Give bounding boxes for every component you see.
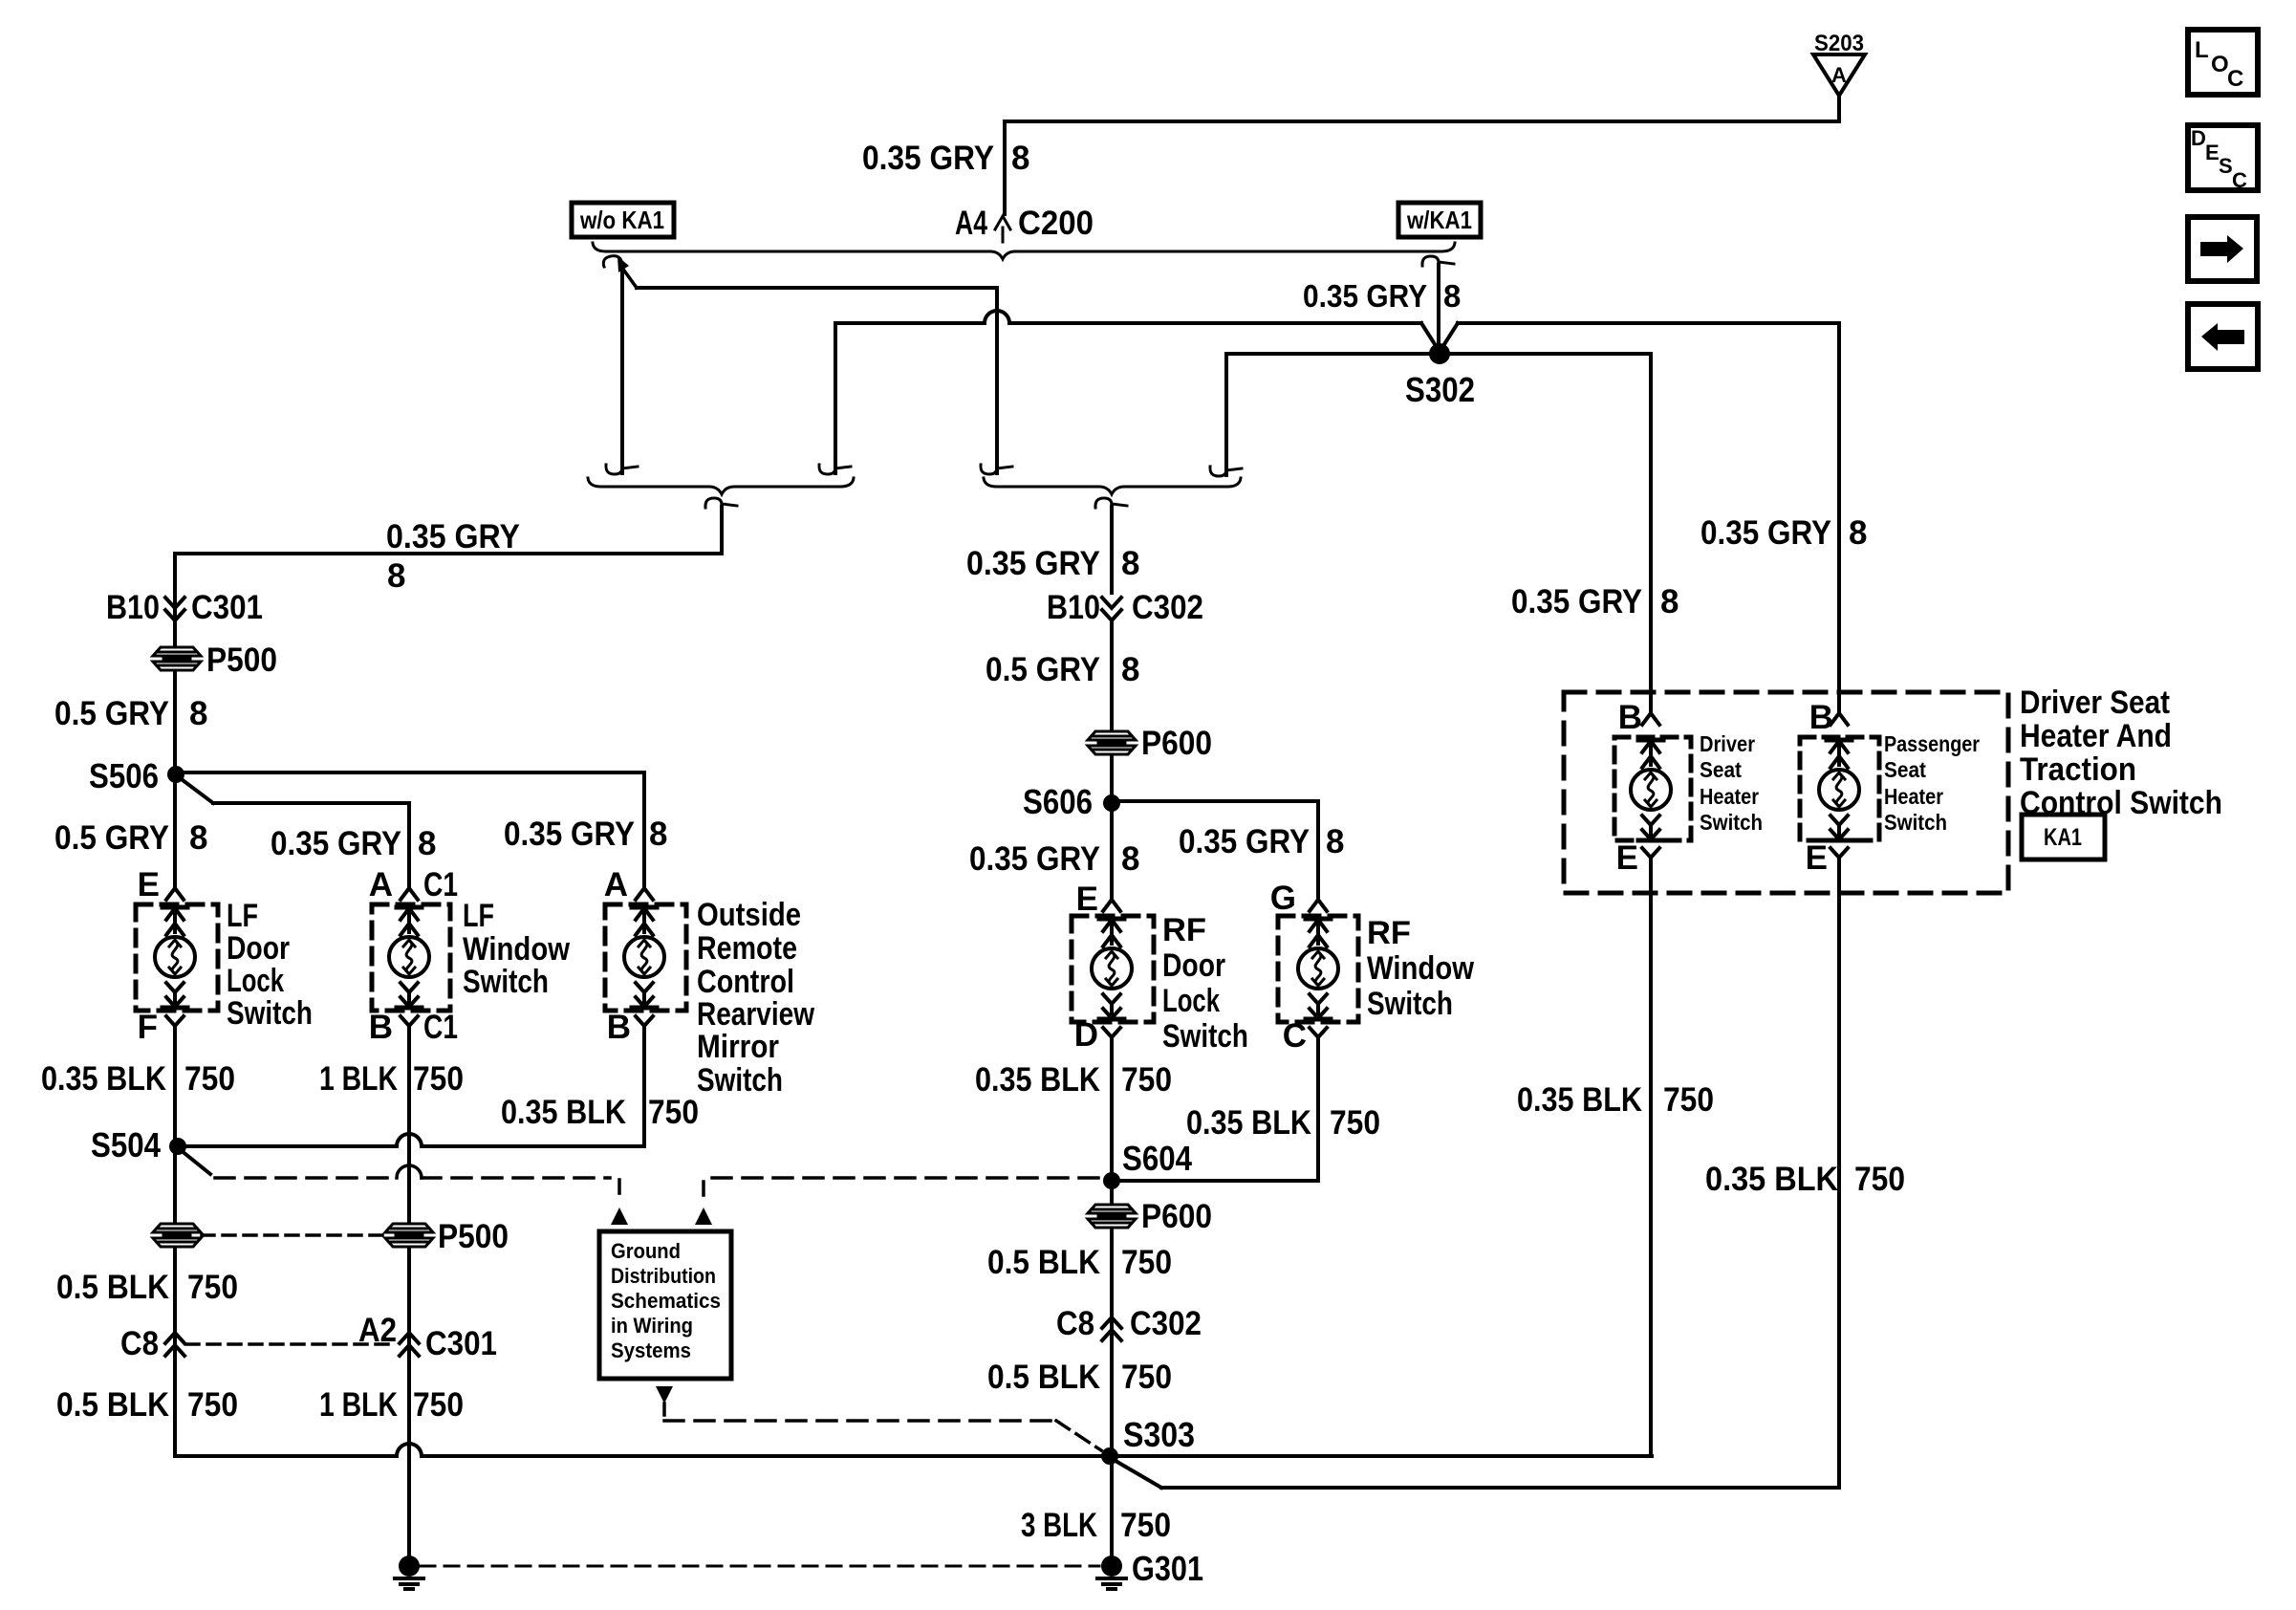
svg-text:750: 750 — [1120, 1507, 1171, 1544]
pin B label (driver heater switch) — [1618, 699, 1642, 736]
svg-text:750: 750 — [187, 1386, 238, 1424]
wire passenger heater feed — [1837, 323, 1841, 713]
connector C302 pin C8 chevrons — [1056, 1305, 1202, 1342]
svg-text:750: 750 — [1854, 1161, 1905, 1198]
svg-text:750: 750 — [184, 1060, 235, 1098]
wire label 0.35 GRY 8 (center feed) — [966, 545, 1139, 582]
wire label 0.35 BLK 750 (RF door) — [975, 1061, 1172, 1099]
wire label 0.5 BLK 750 (middle lower) — [987, 1359, 1172, 1396]
wire left column to ground rail — [175, 1444, 1652, 1456]
pin G chevron — [1310, 900, 1327, 911]
wire S302 left arm — [1226, 352, 1430, 356]
svg-text:S606: S606 — [1023, 782, 1093, 821]
pin B fork (LF window) — [401, 1016, 418, 1042]
pin E label (driver heater switch) — [1616, 839, 1638, 877]
svg-text:Systems: Systems — [611, 1338, 691, 1362]
svg-text:E: E — [1806, 839, 1828, 877]
connector C301 pin B10 labels — [106, 589, 263, 626]
svg-text:P600: P600 — [1141, 725, 1212, 762]
svg-text:C: C — [2232, 168, 2247, 192]
ground symbol left — [395, 1556, 423, 1589]
svg-text:0.5 BLK: 0.5 BLK — [56, 1269, 169, 1306]
dashed link C8 to A2 — [186, 1342, 397, 1346]
svg-text:P500: P500 — [206, 642, 277, 679]
svg-text:Mirror: Mirror — [697, 1029, 779, 1065]
svg-text:0.5 BLK: 0.5 BLK — [987, 1359, 1100, 1396]
svg-text:w/KA1: w/KA1 — [1406, 206, 1472, 234]
svg-text:Switch: Switch — [1884, 810, 1947, 835]
wire S606 to RF window feed — [1112, 801, 1318, 900]
pin F fork — [166, 1016, 184, 1042]
wire w/o KA1 branch vertical 2 — [981, 288, 1012, 474]
svg-text:0.35 BLK: 0.35 BLK — [1705, 1161, 1838, 1198]
svg-text:0.5 GRY: 0.5 GRY — [986, 651, 1100, 688]
wire S504 to mirror drop with hop — [178, 1134, 644, 1146]
svg-text:RF: RF — [1367, 915, 1411, 951]
svg-text:8: 8 — [1326, 823, 1344, 860]
wire middle column upper — [1110, 620, 1114, 900]
pin A label (mirror switch) — [604, 866, 628, 903]
svg-text:w/o KA1: w/o KA1 — [579, 206, 664, 234]
svg-text:S504: S504 — [91, 1125, 161, 1164]
svg-text:8: 8 — [418, 825, 436, 862]
svg-text:E: E — [2205, 141, 2220, 164]
splice S203 off-page triangle — [1813, 54, 1865, 96]
pin C fork — [1310, 1028, 1327, 1054]
wire driver heater ground drop — [1649, 857, 1653, 1456]
option brace lower left — [588, 478, 854, 494]
pin B label (LF window switch) — [369, 1009, 393, 1046]
svg-text:Door: Door — [227, 930, 290, 967]
mirror switch symbol — [624, 907, 664, 1008]
connector C1 label top — [423, 866, 458, 903]
connector C301 pin B10 chevrons — [165, 598, 184, 620]
heater control switch outer dashed box — [1564, 692, 2008, 893]
pin G label (RF window switch) — [1270, 880, 1296, 917]
wire label 0.35 GRY 8 (mirror feed) — [504, 816, 667, 853]
svg-text:750: 750 — [1663, 1081, 1714, 1119]
svg-text:B: B — [1618, 699, 1642, 736]
svg-text:B10: B10 — [106, 589, 160, 626]
RF door lock switch dashed box — [1072, 916, 1154, 1022]
svg-text:1 BLK: 1 BLK — [319, 1386, 398, 1424]
pin E chevron — [166, 888, 184, 900]
svg-text:Window: Window — [463, 931, 570, 968]
LF door lock switch symbol — [155, 907, 195, 1008]
wire LF door lock ground drop — [173, 1033, 177, 1456]
wire RF door ground drop — [1110, 1044, 1114, 1566]
svg-text:RF: RF — [1162, 912, 1206, 948]
pin A label (LF window switch) — [369, 866, 393, 903]
svg-text:C200: C200 — [1018, 205, 1094, 242]
svg-text:0.35 GRY: 0.35 GRY — [1511, 583, 1642, 620]
RF window switch dashed box — [1278, 916, 1358, 1022]
hook under lower-right brace — [1095, 498, 1127, 509]
svg-text:A4: A4 — [955, 205, 987, 242]
svg-text:B: B — [607, 1009, 631, 1046]
svg-text:0.35 GRY: 0.35 GRY — [504, 816, 635, 853]
RF window switch label — [1367, 915, 1474, 1022]
driver seat heater switch label — [1700, 731, 1763, 835]
wire LF window feed drop — [407, 803, 411, 888]
pin E label (passenger heater switch) — [1806, 839, 1828, 877]
ground G301 — [1097, 1549, 1203, 1589]
svg-text:Window: Window — [1367, 950, 1474, 987]
svg-text:0.35 GRY: 0.35 GRY — [862, 140, 994, 177]
svg-text:0.35 BLK: 0.35 BLK — [975, 1061, 1100, 1099]
svg-text:Outside: Outside — [697, 897, 801, 933]
svg-text:0.35 GRY: 0.35 GRY — [1700, 514, 1831, 552]
wire S302 right arm to driver feed — [1449, 352, 1651, 356]
wire label 0.35 GRY 8 (driver feed) — [1511, 583, 1679, 620]
wire label 0.35 GRY 8 (w/KA1 branch) — [1303, 278, 1461, 314]
svg-text:S: S — [2219, 154, 2233, 178]
svg-text:Switch: Switch — [1162, 1018, 1248, 1055]
wire label 0.35 GRY 8 (LF window feed) — [271, 825, 436, 862]
svg-text:Switch: Switch — [1700, 810, 1763, 835]
svg-text:8: 8 — [1443, 278, 1461, 314]
wire S302 to passenger feed corner — [1458, 321, 1839, 325]
pin A chevron (mirror switch) — [636, 888, 653, 900]
svg-text:KA1: KA1 — [2044, 824, 2082, 851]
connector C200 pin symbol — [995, 216, 1010, 242]
wire from lower-right brace — [1110, 507, 1114, 593]
wire label 3 BLK 750 — [1021, 1507, 1171, 1544]
wire label 0.35 BLK 750 (passenger ground) — [1705, 1161, 1905, 1198]
svg-text:Seat: Seat — [1700, 757, 1742, 782]
passenger seat heater switch symbol — [1819, 740, 1859, 840]
svg-text:8: 8 — [1121, 651, 1139, 688]
svg-text:8: 8 — [387, 557, 405, 595]
splice S203 label — [1814, 31, 1864, 56]
svg-text:750: 750 — [413, 1386, 464, 1424]
driver seat heater switch dashed box — [1614, 737, 1691, 840]
wire label 1 BLK 750 (window lower) — [319, 1386, 464, 1424]
svg-text:1 BLK: 1 BLK — [319, 1060, 398, 1098]
wire S506 to mirror switch feed — [176, 771, 644, 774]
wire label 0.35 BLK 750 (LF door) — [41, 1060, 235, 1098]
svg-text:Heater And: Heater And — [2020, 718, 2172, 754]
svg-text:8: 8 — [189, 695, 207, 732]
svg-text:0.5 BLK: 0.5 BLK — [56, 1386, 169, 1424]
wire S303 diagonal to passenger ground rail — [1116, 1461, 1839, 1488]
pass-through grommet P600 upper — [1087, 725, 1212, 762]
svg-text:in Wiring: in Wiring — [611, 1314, 693, 1338]
svg-text:P500: P500 — [438, 1218, 509, 1255]
svg-text:750: 750 — [1121, 1244, 1172, 1281]
svg-text:C302: C302 — [1132, 589, 1203, 626]
mirror switch label — [697, 897, 814, 1099]
wire label 0.35 GRY 8 (RF window feed) — [1179, 823, 1344, 860]
svg-text:750: 750 — [413, 1060, 464, 1098]
svg-text:0.35 GRY: 0.35 GRY — [271, 825, 401, 862]
svg-text:F: F — [138, 1009, 158, 1046]
pin F label (LF door lock switch) — [138, 1009, 158, 1046]
svg-text:Traction: Traction — [2020, 751, 2136, 788]
LF window switch dashed box — [372, 904, 450, 1011]
svg-text:Distribution: Distribution — [611, 1264, 716, 1288]
svg-text:C8: C8 — [120, 1325, 159, 1362]
pin D fork — [1103, 1028, 1120, 1054]
wire from S302 up-right diagonal — [1440, 323, 1458, 352]
pin B chevron (driver heater) — [1642, 713, 1659, 725]
svg-text:0.35 GRY: 0.35 GRY — [1179, 823, 1310, 860]
svg-text:A2: A2 — [358, 1312, 397, 1349]
svg-text:0.35 GRY: 0.35 GRY — [386, 518, 520, 555]
ground distribution note box — [599, 1231, 731, 1379]
svg-text:Driver Seat: Driver Seat — [2020, 685, 2170, 721]
splice S303 node — [1101, 1415, 1195, 1465]
svg-text:B: B — [369, 1009, 393, 1046]
svg-text:S604: S604 — [1122, 1139, 1192, 1178]
dashed route to S303 — [664, 1403, 1101, 1450]
svg-text:750: 750 — [1121, 1359, 1172, 1396]
connector C200 pin A4 label — [955, 205, 1094, 242]
wire mirror switch ground drop — [642, 1033, 646, 1146]
svg-text:0.35 GRY: 0.35 GRY — [1303, 278, 1427, 314]
svg-text:LF: LF — [227, 898, 258, 934]
svg-text:8: 8 — [649, 816, 667, 853]
svg-text:S203: S203 — [1814, 31, 1864, 56]
RF door lock switch symbol — [1092, 919, 1132, 1019]
LF door lock switch label — [227, 898, 313, 1032]
pin E fork (driver heater) — [1642, 848, 1659, 874]
svg-text:8: 8 — [1121, 840, 1139, 878]
nav box DESC — [2188, 125, 2258, 192]
svg-text:0.5 GRY: 0.5 GRY — [54, 819, 169, 857]
svg-text:750: 750 — [648, 1094, 699, 1131]
svg-text:A: A — [1831, 63, 1847, 87]
wire label 0.35 BLK 750 (mirror) — [501, 1094, 699, 1131]
svg-text:0.35 BLK: 0.35 BLK — [41, 1060, 166, 1098]
svg-text:Seat: Seat — [1884, 757, 1926, 782]
wire left column upper — [173, 554, 177, 888]
option box w/o KA1 — [572, 203, 674, 237]
wire passenger heater ground drop — [1837, 857, 1841, 1488]
wire RF window ground drop — [1112, 1044, 1318, 1181]
svg-text:8: 8 — [1121, 545, 1139, 582]
svg-text:Driver: Driver — [1700, 731, 1755, 756]
wire label 0.5 GRY 8 (below S506) — [54, 819, 207, 857]
svg-text:Rearview: Rearview — [697, 996, 814, 1033]
svg-text:Switch: Switch — [463, 964, 549, 1000]
wire w/KA1 branch vertical — [1437, 265, 1440, 350]
svg-text:8: 8 — [1011, 140, 1029, 177]
wire label 0.5 BLK 750 (left lower) — [56, 1386, 238, 1424]
wire from lower-left brace — [175, 507, 722, 554]
pass-through grommet P600 lower — [1087, 1198, 1212, 1235]
svg-text:B: B — [1809, 699, 1833, 736]
svg-text:3 BLK: 3 BLK — [1021, 1507, 1097, 1544]
svg-text:750: 750 — [1330, 1104, 1380, 1142]
svg-text:C1: C1 — [423, 866, 458, 903]
LF window switch symbol — [389, 907, 429, 1008]
svg-text:E: E — [1616, 839, 1638, 877]
wire label 0.35 BLK 750 (RF window) — [1186, 1104, 1380, 1142]
wire label 0.35 GRY 8 (passenger feed) — [1700, 514, 1867, 552]
pin E fork (passenger heater) — [1830, 848, 1848, 874]
svg-text:750: 750 — [1121, 1061, 1172, 1099]
svg-text:C302: C302 — [1130, 1305, 1202, 1342]
svg-text:0.35 BLK: 0.35 BLK — [1186, 1104, 1311, 1142]
wire w/o KA1 branch vertical 3 — [819, 323, 851, 474]
svg-text:G: G — [1270, 880, 1296, 917]
passenger seat heater switch label — [1884, 731, 1980, 835]
svg-text:C: C — [1283, 1017, 1307, 1055]
pin B chevron (passenger heater) — [1830, 713, 1848, 725]
svg-text:S506: S506 — [89, 756, 159, 795]
dashed branch from S504 — [181, 1150, 619, 1195]
wire label 0.5 GRY 8 (above S506) — [54, 695, 207, 732]
pin B label (mirror switch) — [607, 1009, 631, 1046]
splice S504 node — [91, 1125, 186, 1164]
RF door lock switch label — [1162, 912, 1248, 1055]
wire label 0.35 GRY 8 (RF door feed) — [969, 840, 1139, 878]
wire mirror switch feed drop — [642, 772, 646, 888]
svg-text:C301: C301 — [191, 589, 263, 626]
splice S604 node — [1103, 1139, 1192, 1189]
option brace under C200 — [593, 243, 1455, 259]
LF door lock switch dashed box — [136, 904, 218, 1011]
wire label 0.35 GRY (left feed) — [386, 518, 520, 555]
pin D label (RF door lock switch) — [1074, 1016, 1098, 1054]
pass-through grommet P500 upper — [152, 642, 277, 679]
svg-text:Lock: Lock — [1162, 983, 1220, 1019]
wire w/o KA1 branch horizontal — [637, 286, 997, 290]
nav box arrow right — [2188, 217, 2257, 281]
splice S506 node — [89, 756, 184, 795]
svg-text:D: D — [1074, 1016, 1098, 1054]
wire S302 left arm drop — [1210, 354, 1242, 476]
svg-text:Lock: Lock — [227, 963, 284, 999]
wire label 0.5 GRY 8 (middle) — [986, 651, 1139, 688]
svg-text:C1: C1 — [423, 1009, 458, 1046]
passenger seat heater switch dashed box — [1800, 737, 1879, 840]
svg-text:Switch: Switch — [1367, 986, 1453, 1022]
svg-text:0.35 BLK: 0.35 BLK — [501, 1094, 626, 1131]
driver seat heater switch symbol — [1631, 740, 1671, 840]
svg-text:0.5 BLK: 0.5 BLK — [987, 1244, 1100, 1281]
w/o KA1 branch hook and arrow — [603, 256, 637, 288]
dashed ground link — [421, 1565, 1099, 1568]
svg-text:O: O — [2211, 52, 2229, 77]
svg-text:Ground: Ground — [611, 1239, 681, 1263]
svg-text:0.35 GRY: 0.35 GRY — [969, 840, 1100, 878]
svg-text:B10: B10 — [1047, 589, 1100, 626]
option tag KA1 box — [2022, 815, 2105, 859]
mirror switch dashed box — [605, 904, 686, 1011]
pin C label (RF window switch) — [1283, 1017, 1307, 1055]
svg-text:Heater: Heater — [1700, 784, 1759, 809]
wire label 1 BLK 750 (LF window) — [319, 1060, 464, 1098]
nav box arrow left — [2188, 304, 2258, 369]
splice S302 label — [1405, 370, 1475, 409]
wire w/o KA1 branch vertical 1 — [606, 272, 638, 474]
svg-text:8: 8 — [1849, 514, 1867, 552]
ground distribution pointer triangle left — [611, 1207, 628, 1225]
svg-text:E: E — [138, 866, 160, 903]
pin B label (passenger heater switch) — [1809, 699, 1833, 736]
pin E label (RF door lock switch) — [1076, 881, 1098, 918]
svg-text:8: 8 — [189, 819, 207, 857]
wire label 0.35 GRY 8 (top feed) — [862, 140, 1029, 177]
svg-text:0.35 GRY: 0.35 GRY — [966, 545, 1100, 582]
splice S606 node — [1023, 782, 1120, 821]
w/KA1 branch hook — [1422, 256, 1454, 267]
svg-text:8: 8 — [1660, 583, 1679, 620]
connector C1 label bottom — [423, 1009, 458, 1046]
nav box LOC — [2188, 30, 2258, 95]
svg-text:Heater: Heater — [1884, 784, 1943, 809]
svg-text:D: D — [2191, 126, 2206, 150]
svg-text:Schematics: Schematics — [611, 1289, 721, 1313]
wire LF window ground drop — [407, 1033, 411, 1566]
svg-text:G301: G301 — [1132, 1549, 1203, 1588]
pin B fork (mirror switch) — [636, 1016, 653, 1042]
dashed link right of pointer — [704, 1178, 1099, 1195]
svg-text:P600: P600 — [1141, 1198, 1212, 1235]
svg-text:750: 750 — [187, 1269, 238, 1306]
splice S302 node — [1429, 343, 1450, 364]
wire S506 diagonal branch — [179, 777, 409, 803]
svg-text:LF: LF — [463, 898, 494, 934]
connector C8 chevrons (left) — [120, 1325, 184, 1362]
option brace lower right — [984, 478, 1241, 494]
LF window switch label — [463, 898, 570, 1000]
wire into S302 from left diagonal — [1421, 323, 1440, 352]
svg-text:Door: Door — [1162, 947, 1225, 984]
svg-text:L: L — [2195, 37, 2209, 63]
wire label 0.5 BLK 750 (middle upper) — [987, 1244, 1172, 1281]
connector C301 pin A2 chevrons — [358, 1312, 497, 1362]
wire from S203 down and left to C200 feed — [1005, 96, 1839, 214]
ground distribution pointer triangle right — [695, 1207, 712, 1225]
svg-text:0.35 BLK: 0.35 BLK — [1517, 1081, 1642, 1119]
RF window switch symbol — [1298, 919, 1338, 1019]
svg-text:A: A — [604, 866, 628, 903]
ground distribution down triangle — [656, 1386, 673, 1403]
wire driver heater feed — [1649, 354, 1653, 713]
svg-text:S302: S302 — [1405, 370, 1475, 409]
svg-text:C301: C301 — [425, 1325, 497, 1362]
svg-text:A: A — [369, 866, 393, 903]
svg-text:Remote: Remote — [697, 930, 797, 967]
pin A chevron (LF window) — [401, 888, 418, 900]
hook under lower-left brace — [705, 498, 737, 509]
wire label 8 (left feed) — [387, 557, 405, 595]
pin E label (LF door lock switch) — [138, 866, 160, 903]
option box w/KA1 — [1398, 203, 1481, 237]
pin E chevron (RF door) — [1103, 900, 1120, 911]
wire label 0.5 BLK 750 (left) — [56, 1269, 238, 1306]
svg-text:C: C — [2227, 66, 2243, 92]
connector C302 pin B10 chevrons — [1047, 589, 1203, 626]
svg-text:Passenger: Passenger — [1884, 731, 1980, 756]
svg-text:E: E — [1076, 881, 1098, 918]
pass-through grommet P500 lower pair — [152, 1218, 509, 1255]
svg-text:Switch: Switch — [697, 1062, 783, 1099]
svg-text:S303: S303 — [1123, 1415, 1195, 1454]
svg-text:Switch: Switch — [227, 995, 313, 1032]
svg-text:0.5 GRY: 0.5 GRY — [54, 695, 169, 732]
svg-text:C8: C8 — [1056, 1305, 1094, 1342]
wire label 0.35 BLK 750 (driver ground) — [1517, 1081, 1714, 1119]
wire w/o KA1 lower horizontal with hop — [835, 311, 1421, 323]
svg-text:Control: Control — [697, 964, 794, 1000]
heater control switch title — [2020, 685, 2222, 821]
